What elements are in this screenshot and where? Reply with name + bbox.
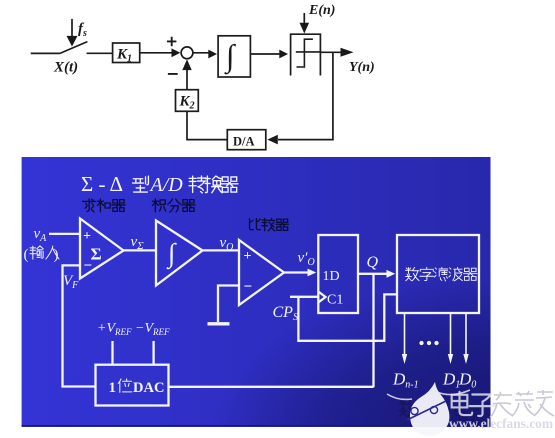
svg-text:): ) — [54, 247, 59, 263]
svg-text:A/D: A/D — [149, 174, 184, 196]
svg-text:+: + — [244, 249, 252, 264]
svg-text:Σ: Σ — [91, 245, 102, 264]
svg-text:+: + — [83, 229, 91, 244]
svg-text:X(t): X(t) — [53, 60, 78, 76]
svg-text:∫: ∫ — [166, 238, 177, 270]
svg-text:Q: Q — [367, 254, 379, 271]
svg-text:D/A: D/A — [233, 135, 255, 149]
svg-text:Y(n): Y(n) — [349, 60, 375, 75]
svg-text:−: − — [84, 258, 93, 274]
svg-text:Σ - Δ: Σ - Δ — [81, 172, 123, 196]
svg-text:www.elecfans.com: www.elecfans.com — [449, 417, 553, 432]
svg-text:C1: C1 — [327, 293, 343, 308]
svg-text:1: 1 — [109, 380, 117, 396]
svg-text:1D: 1D — [323, 269, 340, 284]
svg-text:DAC: DAC — [133, 380, 164, 396]
svg-text:(: ( — [24, 247, 29, 263]
svg-text:E(n): E(n) — [308, 3, 335, 18]
svg-text:−: − — [244, 279, 253, 295]
